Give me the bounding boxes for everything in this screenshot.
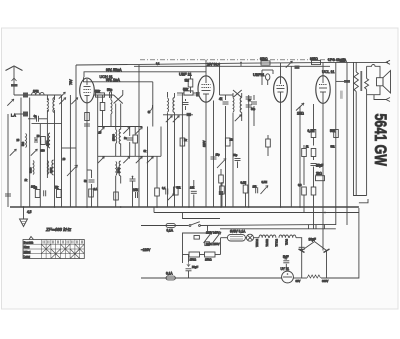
resistor box mid [205,242,210,246]
wire vertical [20,98,22,208]
resistor row1 [41,137,46,145]
table columns [41,240,79,259]
svg-text:1MΩ: 1MΩ [297,112,304,116]
wire vertical [54,95,56,100]
IF transformer 3 [233,98,234,112]
svg-text:0,1: 0,1 [94,188,98,191]
wire diode pin down [213,101,215,208]
svg-text:150Ω: 150Ω [205,258,212,262]
resistor 50k top [334,130,339,138]
speaker loop top [367,65,380,78]
wire agc row [163,114,193,116]
antenna [6,66,23,71]
switch antenna low [7,99,14,106]
svg-text:300V: 300V [322,279,328,283]
IF transformer 2 [168,98,169,112]
inductor box row1 a [26,134,27,148]
resistor zigzag secondary [366,66,368,78]
capacitor stack left of tube3 [246,97,252,99]
resistor left small [302,149,307,157]
svg-text:1000: 1000 [33,90,39,93]
capacitor 10pF [211,157,217,159]
dial lamp [247,234,254,241]
svg-text:10p: 10p [216,154,221,157]
svg-text:76V: 76V [69,78,73,85]
inductor row2 pair [47,161,48,175]
bus second [154,212,359,214]
node oscillator dot [147,110,150,113]
antenna coupling capacitor [11,84,18,87]
capacitor under tube1 [89,180,95,182]
tube UBF11 second [274,77,288,103]
resistor bottom a [302,187,307,195]
IF coil pair 2 [116,162,117,176]
resistor 0.2M [311,130,316,138]
switch on rail [286,61,293,68]
wire tube2 down [205,102,207,207]
electrolytic arrow [187,262,190,267]
lamp housing [227,234,245,241]
svg-text:~220V: ~220V [141,248,151,252]
wire vertical x347 [346,81,348,225]
svg-text:4,5: 4,5 [27,210,32,214]
potentiometer 1M [296,103,304,111]
terminal arrow right top [386,60,390,64]
capacitor mid [127,138,133,140]
wire verticals power top [308,224,310,228]
capacitor trimmer row1 [35,137,37,143]
wire vertical [39,124,41,207]
svg-text:50μF: 50μF [192,265,199,269]
resistor top 47k [266,139,271,147]
inductor antenna coil [32,92,45,95]
svg-text:Kurz: Kurz [24,245,30,249]
capacitor on drop [299,247,305,249]
switch under ift3 [235,115,242,122]
svg-text:30μF: 30μF [309,238,316,242]
corner wires right [354,63,367,196]
wire vertical [69,95,71,207]
svg-text:0,5M: 0,5M [262,181,268,184]
switch near tube1 [71,98,78,105]
wire tube4 down [322,103,324,250]
resistor bottom a [35,190,40,198]
wire [14,113,23,115]
capacitor blob [196,92,200,97]
node blob [23,93,28,98]
wire x326.5 down [326,251,328,279]
wire vertical [248,95,250,207]
capacitor blob det [219,191,223,195]
resistor 1k on screen drop [180,138,185,146]
svg-text:UBF 11: UBF 11 [179,73,192,77]
wire vertical [29,98,31,208]
svg-text:5k: 5k [55,186,59,190]
resistor bottom 1k [114,192,119,200]
junction dots on bus [23,206,337,213]
svg-text:1500: 1500 [47,140,50,146]
wire mains top [141,225,189,227]
svg-text:6V8V 0,1A: 6V8V 0,1A [230,230,246,234]
resistor under tube1 [89,189,94,197]
crossed wires IFT3 [233,90,242,98]
capacitor 50pF [110,92,112,98]
svg-text:42mA: 42mA [339,58,346,62]
potentiometer arrow [217,159,226,169]
svg-text:UCL 11: UCL 11 [322,70,334,74]
resistor 150a [189,252,200,257]
inductor row2 a [33,161,34,175]
wire selector row [183,254,190,256]
svg-text:UY 11: UY 11 [281,267,290,271]
svg-text:Bereich: Bereich [24,240,34,244]
wire vertical right of tube3 [290,66,292,207]
wire left drop [75,65,77,207]
resistor NSF small [194,236,199,240]
potentiometer volume [261,186,269,195]
resistor 0.1M det [219,175,224,183]
wire HT supply rail [76,62,388,65]
diode cap stack [246,97,252,99]
resistor 3M left of tube [188,79,193,87]
tube UBF11 [198,76,214,102]
svg-text:100: 100 [31,186,36,189]
svg-text:5000: 5000 [30,167,33,173]
surge chevron [302,242,327,251]
svg-text:3000: 3000 [50,167,53,173]
resistor 150b [205,252,216,257]
switch mid [147,157,154,164]
svg-text:UY11: UY11 [285,239,288,246]
table rows [23,243,84,245]
switch mains [189,225,191,227]
svg-text:5000: 5000 [117,167,120,173]
heater UCL11 [279,235,289,238]
voltage selector arrows [204,232,213,243]
wire bottom resistor [220,186,225,194]
wire anode row [94,94,113,96]
capacitor blob on top [295,66,300,69]
chevron cap left [299,249,305,253]
svg-text:UCH11: UCH11 [255,239,258,248]
table tick [29,237,34,240]
capacitor on left line [5,194,11,196]
wire 96V rail [84,77,153,82]
inductor box row1 b [48,133,50,148]
svg-text:30V: 30V [296,279,301,283]
svg-text:0,1: 0,1 [156,63,160,66]
capacitor bottom [256,187,258,193]
svg-text:0,1: 0,1 [162,187,166,190]
wire vertical [138,65,140,207]
capacitor bottom [166,189,168,195]
wire vertical [167,122,169,207]
fuse 0.1A bottom [166,276,175,280]
svg-text:300: 300 [41,150,46,153]
svg-text:3M: 3M [185,79,190,83]
wire horizontal grid row [177,94,198,96]
heater UCH11 [259,235,269,238]
svg-text:ZF=468 kHz: ZF=468 kHz [45,227,72,232]
svg-text:15000: 15000 [112,133,115,141]
svg-text:0,2M: 0,2M [308,129,315,133]
wire mains continue [200,224,335,225]
wire row A [98,126,143,128]
ground bus main [10,206,359,208]
resistor 50k [96,93,105,97]
capacitor 4k left [223,102,229,104]
wire feed IFT3 [219,66,221,95]
resistor 885 on rail [312,60,321,64]
wire vertical agc [188,115,190,207]
variable capacitor arrow big [67,165,78,176]
resistor 2M [225,138,230,146]
node blob 2 [23,112,28,117]
svg-text:0,1M: 0,1M [241,182,247,185]
wire vertical feed [152,82,154,127]
svg-text:120V: 120V [202,140,206,147]
wire box around tube3 top [261,70,263,85]
wire screen drop [181,93,183,207]
resistor bottom b [311,187,316,195]
svg-text:UCL11: UCL11 [275,239,278,247]
wire vertical [147,127,149,208]
wire tube3 down [280,102,282,207]
selector inner box wire [183,226,208,264]
resistor 30ohm zigzag [293,277,307,279]
wire vertical x335 [335,62,337,225]
switch under ift2 [166,116,173,123]
wire vertical [61,95,63,207]
table frame [23,240,84,259]
svg-text:UCH 11: UCH 11 [100,75,113,79]
svg-text:500: 500 [22,141,25,146]
wire to right [296,238,302,278]
svg-text:25μF: 25μF [316,164,323,168]
svg-text:Lang: Lang [24,255,31,259]
resistor bottom [174,187,179,195]
rectifier UY11 [282,271,294,283]
tube UCH11 [80,78,95,103]
antenna plug arrow [12,78,17,81]
svg-text:50k: 50k [95,90,101,94]
svg-text:5641 GW: 5641 GW [371,114,390,167]
switch row B [98,157,105,164]
svg-text:50k: 50k [330,129,336,133]
svg-text:120V 240V: 120V 240V [206,231,220,235]
svg-text:0,1A: 0,1A [167,229,174,233]
speaker magnet [377,78,384,86]
svg-text:98V, 55mA: 98V, 55mA [106,68,122,72]
wire tube1 cathode down [86,103,88,207]
capacitor grid blob [344,80,350,83]
svg-text:0,1A: 0,1A [166,272,173,276]
wire vertical [46,95,48,100]
fuse 0.1A top [166,224,175,228]
resistor 62k on rail [261,61,270,65]
wire second rail [134,65,330,67]
resistor bottom 0.1M [243,185,248,193]
svg-text:50p: 50p [233,153,238,157]
capacitor 4u near ift2 [183,103,189,105]
terminal bottom right [374,95,390,102]
svg-text:10k: 10k [133,188,139,192]
wire row B [98,155,161,157]
ground symbol [23,207,25,219]
capacitor 4n [37,116,39,122]
table header column ticks [43,241,83,244]
svg-text:4k: 4k [219,97,223,101]
svg-text:10k: 10k [190,186,195,190]
wire 98V rail [84,72,206,78]
svg-text:5μF: 5μF [283,255,289,259]
capacitor bottom 10k [136,192,138,198]
tube UCL11 [316,76,330,104]
switch row arrows [31,149,38,156]
table X marks [41,244,51,254]
wire vertical x358.9 [358,208,360,279]
svg-text:150Ω: 150Ω [190,258,197,262]
coil stub [111,100,112,114]
resistor bottom 0.1M [155,188,160,196]
wire mains bottom [141,277,282,279]
resistor stub [100,103,105,111]
capacitor under [130,179,136,181]
svg-text:50p: 50p [251,108,256,111]
bus step [154,207,220,219]
wire heater chain [221,237,228,239]
diode electrode small [266,74,270,80]
capacitor 10k bottom [191,191,197,193]
svg-text:UBF11: UBF11 [253,73,265,77]
resistor mid [311,149,316,157]
wire chassis dash-dot top rail [140,59,330,61]
crossed wires [114,95,123,104]
resistor under tube1 [85,113,90,121]
svg-text:26V 93,4: 26V 93,4 [207,62,220,66]
heater UY11 [290,235,296,238]
svg-text:50k: 50k [183,88,189,92]
switch antenna [59,92,66,99]
svg-text:2kΩ: 2kΩ [316,172,322,176]
wire avc tie [62,147,77,149]
capacitor agc blob [187,113,192,116]
resistor zigzag primary [355,62,357,72]
wire antenna row [14,94,62,96]
node tick [240,63,242,67]
wire vertical [97,95,99,207]
wire vertical [160,127,162,157]
capacitor 4k right [251,102,257,104]
capacitor bottom a [44,190,46,196]
wire vertical [7,124,9,207]
heater UBF11 [270,235,276,238]
svg-text:Mittel: Mittel [24,250,31,254]
bus power second [220,228,336,230]
electrolytic 25uF [311,164,317,166]
svg-text:UBF11: UBF11 [265,239,268,247]
speaker cone [383,71,391,93]
capacitor 5uF [283,261,289,263]
capacitor under tube1 b [84,124,90,126]
resistor 50k grid [184,91,193,95]
transformer core bar [360,71,362,91]
wire row [32,123,62,125]
IF coil pair 1 [116,130,117,144]
svg-text:50p: 50p [107,88,113,92]
electrolytic gray [340,91,343,99]
speaker loop bottom [367,86,380,95]
switch row A [98,127,105,134]
switch bottom left [168,194,175,201]
resistor 10k [133,135,138,143]
transformer input [47,98,48,112]
resistor 2k horizontal [316,176,325,181]
chevron cap right [324,249,330,253]
resistor bottom b [57,190,62,198]
capacitor 50pF det [235,159,241,161]
svg-text:0,3: 0,3 [298,184,302,187]
